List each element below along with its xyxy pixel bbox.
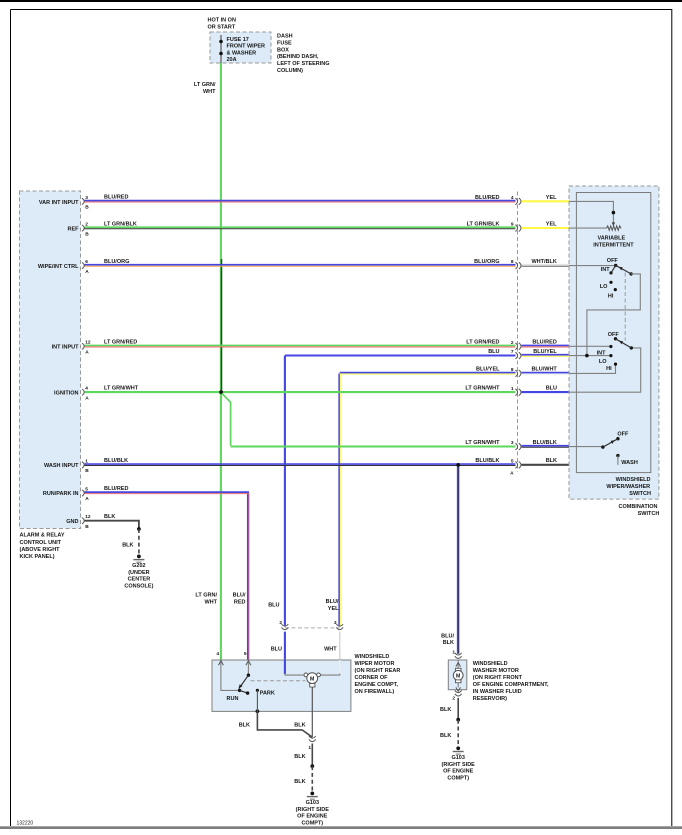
svg-text:B: B bbox=[85, 231, 89, 237]
connector pin 8 (switch harness) bbox=[511, 259, 521, 269]
connector pin 9 (switch harness) bbox=[511, 222, 521, 232]
svg-text:PARK: PARK bbox=[260, 691, 275, 697]
wire LT GRN/BLK row2 ref bbox=[85, 226, 516, 228]
wire gray row2 feed to resistor left end bbox=[569, 227, 607, 229]
SW3 pivot bbox=[601, 445, 604, 448]
svg-text:B: B bbox=[85, 468, 89, 474]
svg-text:FUSE: FUSE bbox=[277, 40, 292, 46]
svg-text:WASH: WASH bbox=[621, 460, 638, 466]
svg-text:5: 5 bbox=[511, 459, 514, 465]
dash fuse box bbox=[210, 32, 271, 63]
svg-text:COMPT): COMPT) bbox=[447, 775, 469, 781]
svg-text:OR START: OR START bbox=[208, 25, 236, 31]
wire BLU row5 bbox=[285, 354, 516, 356]
connector at wiper ground bbox=[308, 736, 315, 751]
svg-text:INT: INT bbox=[597, 351, 607, 357]
ground G103 washer bbox=[442, 746, 476, 781]
svg-text:BLK: BLK bbox=[440, 733, 451, 739]
svg-text:LT GRN/WHT: LT GRN/WHT bbox=[465, 440, 500, 446]
connector pin 2 (switch harness) bbox=[511, 340, 521, 350]
park switch pivot bbox=[247, 674, 250, 677]
svg-text:BLK: BLK bbox=[104, 514, 115, 520]
svg-text:LT GRN/WHT: LT GRN/WHT bbox=[104, 386, 139, 392]
connector column dashed line bbox=[517, 192, 519, 472]
SW3 arm bbox=[603, 439, 618, 447]
svg-text:OF ENGINE: OF ENGINE bbox=[297, 814, 328, 820]
mechanical link dashed to motor bbox=[251, 680, 306, 682]
svg-text:BLU: BLU bbox=[271, 646, 282, 652]
svg-text:ENGINE COMPT,: ENGINE COMPT, bbox=[355, 682, 399, 688]
SW2 INT contact bbox=[609, 345, 612, 348]
junction LO line / SW1 pivot feed bbox=[585, 354, 589, 358]
svg-text:OFF: OFF bbox=[617, 431, 629, 437]
svg-text:4: 4 bbox=[216, 651, 219, 657]
svg-text:WINDSHIELD: WINDSHIELD bbox=[355, 654, 390, 660]
wire LT GRN/RED row4 int input bbox=[85, 344, 516, 346]
pin A6 connector (control unit) bbox=[82, 259, 89, 275]
svg-text:LT GRN/BLK: LT GRN/BLK bbox=[104, 221, 137, 227]
SW1 LO contact bbox=[609, 281, 612, 284]
pin B3 connector (control unit) bbox=[82, 195, 89, 211]
wire BLU/YEL row5 right bbox=[522, 354, 570, 356]
svg-text:LT GRN/BLK: LT GRN/BLK bbox=[467, 222, 500, 228]
svg-text:G103: G103 bbox=[306, 800, 319, 806]
svg-text:BLU/: BLU/ bbox=[326, 599, 339, 605]
svg-text:(ABOVE RIGHT: (ABOVE RIGHT bbox=[20, 547, 61, 553]
svg-text:BLU/RED: BLU/RED bbox=[532, 340, 556, 346]
wire BLU to wiper motor pin 2 (upper) bbox=[284, 356, 286, 626]
svg-text:BLU/ORG: BLU/ORG bbox=[474, 259, 499, 265]
SW1 HI contact bbox=[614, 288, 617, 291]
svg-text:LEFT OF STEERING: LEFT OF STEERING bbox=[277, 61, 330, 67]
wire BLU/BLK row9 wash input bbox=[85, 463, 516, 465]
svg-text:(ON RIGHT REAR: (ON RIGHT REAR bbox=[355, 668, 401, 674]
switch SW2 lower wiper switch bbox=[597, 332, 633, 372]
wire LT GRN/WHT fuse to wiper motor pin 4 bbox=[220, 63, 222, 660]
svg-text:FRONT WIPER: FRONT WIPER bbox=[227, 44, 266, 50]
svg-text:A: A bbox=[85, 395, 89, 401]
wire BLK dashed to G202 bbox=[138, 529, 140, 556]
svg-text:CORNER OF: CORNER OF bbox=[355, 675, 389, 681]
connector pin 2 (wiper motor) bbox=[279, 620, 288, 629]
svg-text:BLU/BLK: BLU/BLK bbox=[533, 440, 557, 446]
svg-text:20A: 20A bbox=[227, 57, 237, 63]
svg-text:SWITCH: SWITCH bbox=[638, 511, 660, 517]
wire gray row9 inside switch to wash contact bbox=[569, 464, 618, 466]
wire gray row3 feed to SW1 OFF contact bbox=[569, 265, 615, 267]
pin B12 connector (control unit) bbox=[82, 514, 91, 530]
svg-text:12: 12 bbox=[85, 514, 91, 520]
SW2 pivot bbox=[630, 346, 633, 349]
wire WHT inside box bbox=[339, 660, 341, 674]
wire BLU elbow to motor left terminal bbox=[285, 674, 306, 676]
svg-text:SWITCH: SWITCH bbox=[629, 491, 651, 497]
wire BLK dashed to G103 (washer) bbox=[457, 720, 459, 749]
svg-text:4: 4 bbox=[511, 195, 514, 201]
svg-text:A: A bbox=[85, 496, 89, 502]
wire WHT/BLK row3 right bbox=[522, 264, 570, 266]
svg-text:RED: RED bbox=[234, 600, 246, 606]
svg-text:2: 2 bbox=[511, 340, 514, 346]
wire BLU/YEL row6 bbox=[340, 372, 516, 374]
SW1 arm arrowhead bbox=[619, 267, 623, 271]
connector pin 1 (switch harness) bbox=[511, 386, 521, 396]
svg-text:OFF: OFF bbox=[607, 258, 619, 264]
SW3 WASH contact bbox=[616, 454, 619, 457]
svg-text:BLK: BLK bbox=[294, 754, 305, 760]
svg-text:M: M bbox=[456, 674, 460, 680]
svg-text:9: 9 bbox=[511, 222, 514, 228]
svg-text:BLU/WHT: BLU/WHT bbox=[531, 367, 557, 373]
svg-text:ON FIREWALL): ON FIREWALL) bbox=[355, 689, 395, 695]
svg-text:WIPE/INT CTRL: WIPE/INT CTRL bbox=[38, 264, 79, 270]
junction park contact at box bottom bbox=[256, 709, 260, 713]
wire gray row7 to SW2 pivot bbox=[569, 348, 641, 392]
svg-text:BLU/RED: BLU/RED bbox=[104, 486, 128, 492]
pin B2 connector (control unit) bbox=[82, 222, 89, 238]
svg-text:7: 7 bbox=[511, 349, 514, 355]
svg-text:(RIGHT SIDE: (RIGHT SIDE bbox=[442, 762, 476, 768]
svg-text:G103: G103 bbox=[451, 755, 464, 761]
svg-text:COMBINATION: COMBINATION bbox=[618, 504, 657, 510]
pin A5 connector (control unit) bbox=[82, 486, 89, 502]
wire BLU row7 right bbox=[522, 391, 570, 393]
wire pin4 to RUN contact bbox=[221, 662, 240, 690]
wire BLK dashed to G103 (wiper) bbox=[311, 766, 313, 793]
svg-text:LT GRN/: LT GRN/ bbox=[195, 593, 217, 599]
svg-text:LT GRN/RED: LT GRN/RED bbox=[466, 340, 499, 346]
svg-text:HOT IN ON: HOT IN ON bbox=[208, 18, 236, 24]
page top border bar bbox=[0, 0, 682, 2]
connector pin 4 (switch harness) bbox=[511, 195, 521, 205]
SW2 HI contact bbox=[614, 363, 617, 366]
svg-text:ALARM & RELAY: ALARM & RELAY bbox=[20, 533, 65, 539]
SW1 OFF contact bbox=[614, 264, 617, 267]
svg-text:WASH INPUT: WASH INPUT bbox=[44, 463, 79, 469]
svg-text:COLUMN): COLUMN) bbox=[277, 68, 303, 74]
svg-text:(ON RIGHT FRONT: (ON RIGHT FRONT bbox=[473, 675, 523, 681]
wire BLU/WHT row6 right bbox=[522, 372, 570, 374]
svg-text:BLU/YEL: BLU/YEL bbox=[476, 367, 500, 373]
svg-text:BLU/: BLU/ bbox=[233, 593, 246, 599]
switch RUN/PARK park switch bbox=[227, 662, 275, 702]
RUN spur contact bbox=[240, 690, 248, 693]
svg-text:BLU: BLU bbox=[268, 602, 279, 608]
SW1 INT contact bbox=[609, 271, 612, 274]
svg-text:INT: INT bbox=[601, 267, 611, 273]
pin 5 entry arrow (wiper motor) bbox=[244, 651, 251, 665]
svg-text:5: 5 bbox=[244, 651, 247, 657]
svg-text:BLK: BLK bbox=[239, 722, 250, 728]
svg-text:LO: LO bbox=[599, 359, 607, 365]
svg-text:WINDSHIELD: WINDSHIELD bbox=[473, 661, 508, 667]
pin A4 connector (control unit) bbox=[82, 386, 89, 402]
wire BLU inside box bbox=[284, 660, 286, 674]
PARK contact bbox=[256, 689, 259, 692]
park switch feed wire from pin 5 bbox=[247, 662, 249, 675]
SW1 pivot bbox=[629, 272, 632, 275]
svg-text:CENTER: CENTER bbox=[128, 577, 151, 583]
SW2 LO contact bbox=[609, 354, 612, 357]
svg-text:WIPER/WASHER: WIPER/WASHER bbox=[606, 484, 650, 490]
svg-text:YEL: YEL bbox=[328, 606, 339, 612]
pin B1 connector (control unit) bbox=[82, 458, 89, 474]
svg-text:1: 1 bbox=[308, 745, 311, 751]
pin 4 entry arrow (wiper motor) bbox=[216, 651, 223, 665]
svg-text:LT GRN/: LT GRN/ bbox=[194, 82, 216, 88]
motor M1 windshield wiper motor bbox=[304, 673, 320, 687]
svg-text:OF ENGINE: OF ENGINE bbox=[443, 769, 474, 775]
wire BLU/BLK to washer motor pin 1 bbox=[457, 465, 459, 654]
motor M2 windshield washer motor bbox=[453, 660, 463, 691]
wire BLU/RED row10 run/park in bbox=[85, 491, 250, 493]
svg-text:BLU/BLK: BLU/BLK bbox=[475, 458, 499, 464]
svg-text:A: A bbox=[85, 269, 89, 275]
svg-text:A: A bbox=[85, 350, 89, 356]
wire gray row4 to SW2 INT contact bbox=[569, 345, 610, 347]
wire BLU/BLK row8 right bbox=[522, 445, 570, 447]
svg-text:2: 2 bbox=[279, 620, 282, 626]
fuse F17 element bbox=[220, 35, 222, 63]
SW2 OFF contact bbox=[614, 337, 617, 340]
svg-text:8: 8 bbox=[511, 259, 514, 265]
wire gray row6 to SW2 HI contact bbox=[569, 364, 616, 373]
SW2 arm arrowhead bbox=[619, 341, 623, 345]
svg-text:BLU/ORG: BLU/ORG bbox=[104, 259, 129, 265]
wire YEL row2 right bbox=[522, 227, 570, 229]
junction ignition feed / fuse wire bbox=[219, 390, 223, 394]
svg-text:BLK: BLK bbox=[294, 722, 305, 728]
windshield wiper/washer switch inner box bbox=[576, 193, 650, 473]
wire BLK park to motor ground bbox=[257, 711, 312, 737]
wire BLK washer ground bbox=[457, 698, 459, 720]
svg-text:1: 1 bbox=[452, 650, 455, 656]
svg-text:(UNDER: (UNDER bbox=[128, 570, 149, 576]
svg-text:BLU/YEL: BLU/YEL bbox=[533, 349, 557, 355]
SW2 arm bbox=[616, 339, 632, 348]
svg-text:A: A bbox=[510, 471, 514, 477]
svg-text:BLK: BLK bbox=[546, 458, 557, 464]
svg-text:BLK: BLK bbox=[443, 640, 454, 646]
wire BLK to ground splice bbox=[311, 744, 313, 767]
svg-text:G202: G202 bbox=[132, 563, 145, 569]
RUN contact bbox=[238, 689, 241, 692]
wire BLU/YEL to wiper motor pin 3 (upper) bbox=[338, 373, 340, 625]
svg-text:IGNITION: IGNITION bbox=[54, 390, 78, 396]
svg-text:LT GRN/WHT: LT GRN/WHT bbox=[465, 386, 500, 392]
junction gnd elbow splice bbox=[137, 527, 141, 531]
wire BLU/RED row1 var int input bbox=[85, 200, 516, 202]
svg-text:B: B bbox=[85, 524, 89, 530]
svg-text:132220: 132220 bbox=[17, 821, 34, 827]
svg-text:YEL: YEL bbox=[546, 195, 557, 201]
svg-text:BOX: BOX bbox=[277, 47, 289, 53]
svg-text:WHT: WHT bbox=[324, 646, 337, 652]
SW3 OFF contact bbox=[616, 437, 619, 440]
wire LT GRN/WHT row8 branch bbox=[231, 445, 516, 447]
switch SW1 upper wiper switch bbox=[600, 258, 633, 299]
svg-text:LO: LO bbox=[600, 284, 608, 290]
svg-text:RUN: RUN bbox=[227, 696, 239, 702]
resistor wiper arrowhead bbox=[612, 222, 615, 226]
wire PARK contact down bbox=[256, 690, 258, 711]
wire SW1 pivot to LO line junction bbox=[587, 274, 640, 356]
junction wiper ground splice bbox=[310, 764, 314, 768]
windshield washer motor box bbox=[448, 660, 467, 690]
svg-text:HI: HI bbox=[606, 366, 612, 372]
resistor R1 variable intermittent bbox=[607, 226, 622, 230]
park switch arm arrowhead bbox=[239, 684, 243, 688]
svg-text:OF ENGINE COMPARTMENT,: OF ENGINE COMPARTMENT, bbox=[473, 682, 549, 688]
svg-text:IN WASHER FLUID: IN WASHER FLUID bbox=[473, 689, 522, 695]
svg-text:OFF: OFF bbox=[608, 332, 620, 338]
wire gray row5 to SW2 LO contact bbox=[569, 355, 610, 357]
ground G202 bbox=[124, 555, 153, 590]
svg-text:KICK PANEL): KICK PANEL) bbox=[20, 554, 55, 560]
svg-text:RESERVOIR): RESERVOIR) bbox=[473, 696, 507, 702]
svg-text:BLU/BLK: BLU/BLK bbox=[104, 458, 128, 464]
svg-text:WHT: WHT bbox=[203, 89, 216, 95]
svg-text:RUN/PARK IN: RUN/PARK IN bbox=[43, 491, 79, 497]
page bottom gray bar bbox=[0, 826, 682, 829]
svg-text:BLK: BLK bbox=[122, 542, 133, 548]
svg-text:(BEHIND DASH,: (BEHIND DASH, bbox=[277, 54, 319, 60]
wire BLU/RED run/park to wiper motor pin 5 bbox=[247, 493, 249, 660]
wire BLU/ORG row3 wipe/int ctrl bbox=[85, 264, 516, 266]
svg-text:(RIGHT SIDE: (RIGHT SIDE bbox=[296, 807, 330, 813]
svg-text:BLK: BLK bbox=[440, 707, 451, 713]
svg-text:8: 8 bbox=[511, 367, 514, 373]
svg-text:2: 2 bbox=[452, 695, 455, 701]
inline connector dashed line (wiper motor) bbox=[285, 627, 340, 629]
junction wash input / washer motor feed bbox=[456, 463, 460, 467]
switch SW3 washer switch bbox=[601, 431, 638, 465]
svg-text:& WASHER: & WASHER bbox=[227, 50, 257, 56]
SW3 arm arrowhead bbox=[611, 440, 615, 444]
ground G103 wiper bbox=[296, 792, 330, 827]
mechanical link dashed SW1-SW2 bbox=[624, 273, 626, 341]
svg-text:M: M bbox=[310, 676, 314, 682]
connector pin 2 (washer motor) bbox=[452, 690, 461, 701]
svg-text:WINDSHIELD: WINDSHIELD bbox=[616, 477, 651, 483]
pin A12 connector (control unit) bbox=[82, 340, 91, 356]
svg-text:VAR INT INPUT: VAR INT INPUT bbox=[39, 200, 79, 206]
svg-text:COMPT): COMPT) bbox=[301, 821, 323, 827]
svg-text:DASH: DASH bbox=[277, 34, 293, 40]
wire BLU/RED row4 right bbox=[522, 344, 570, 346]
svg-text:WHT/BLK: WHT/BLK bbox=[531, 259, 556, 265]
svg-text:BLK: BLK bbox=[294, 779, 305, 785]
wire LT GRN/WHT branch diagonal to row8 bbox=[222, 393, 231, 445]
svg-text:LT GRN/RED: LT GRN/RED bbox=[104, 340, 137, 346]
svg-text:INT INPUT: INT INPUT bbox=[52, 345, 80, 351]
wire dark green overlay segment bbox=[221, 259, 223, 392]
junction washer ground splice bbox=[456, 718, 460, 722]
SW1 arm bbox=[616, 265, 631, 274]
svg-text:BLU: BLU bbox=[546, 386, 557, 392]
wire WHT below connector bbox=[339, 632, 341, 660]
svg-text:3: 3 bbox=[511, 440, 514, 446]
svg-text:WASHER MOTOR: WASHER MOTOR bbox=[473, 668, 519, 674]
combination switch outer box bbox=[569, 186, 659, 499]
svg-text:BLU/RED: BLU/RED bbox=[104, 195, 128, 201]
wire WASH contact to row9 bbox=[617, 456, 619, 465]
svg-text:HI: HI bbox=[608, 294, 614, 300]
connector pin 3 (wiper motor) bbox=[334, 620, 343, 629]
wire motor M1 ground down bbox=[311, 687, 313, 737]
svg-text:3: 3 bbox=[334, 620, 337, 626]
svg-text:CONSOLE): CONSOLE) bbox=[124, 584, 153, 590]
svg-text:BLU/: BLU/ bbox=[441, 634, 454, 640]
svg-text:1: 1 bbox=[511, 386, 514, 392]
svg-text:BLU/RED: BLU/RED bbox=[475, 195, 499, 201]
connector pin 7 (switch harness) bbox=[511, 349, 521, 359]
svg-text:FUSE 17: FUSE 17 bbox=[227, 37, 249, 43]
wire WHT elbow to motor right terminal bbox=[319, 674, 340, 676]
svg-text:BLU: BLU bbox=[488, 349, 499, 355]
wire BLK row11 gnd bbox=[85, 521, 139, 529]
wire YEL row1 right bbox=[522, 200, 570, 202]
svg-text:YEL: YEL bbox=[546, 222, 557, 228]
park switch arm bbox=[239, 675, 249, 688]
wire gray row8 to SW3 pivot bbox=[569, 446, 603, 448]
svg-text:REF: REF bbox=[68, 226, 80, 232]
connector pin 5 (switch harness) bbox=[511, 459, 521, 469]
wire LT GRN/WHT row7 ignition bbox=[85, 391, 516, 393]
windshield wiper motor box bbox=[212, 660, 351, 711]
wire BLU below connector to motor bbox=[284, 632, 286, 660]
svg-text:CONTROL UNIT: CONTROL UNIT bbox=[20, 540, 62, 546]
svg-text:B: B bbox=[85, 205, 89, 211]
connector pin 1 (washer motor) bbox=[452, 650, 461, 659]
svg-text:WHT: WHT bbox=[204, 600, 217, 606]
connector pin 8 (switch harness) bbox=[511, 367, 521, 377]
alarm and relay control unit box bbox=[20, 191, 81, 529]
svg-text:GND: GND bbox=[66, 519, 78, 525]
connector pin 3 (switch harness) bbox=[511, 440, 521, 450]
svg-text:VARIABLE: VARIABLE bbox=[597, 235, 625, 241]
svg-text:INTERMITTENT: INTERMITTENT bbox=[593, 243, 634, 249]
svg-text:4: 4 bbox=[85, 386, 88, 392]
node resistor wiper terminal bbox=[612, 211, 616, 215]
wire BLK row9 right bbox=[522, 464, 570, 466]
svg-text:WIPER MOTOR: WIPER MOTOR bbox=[355, 661, 395, 667]
wire gray row1 feed to resistor wiper bbox=[569, 201, 613, 223]
